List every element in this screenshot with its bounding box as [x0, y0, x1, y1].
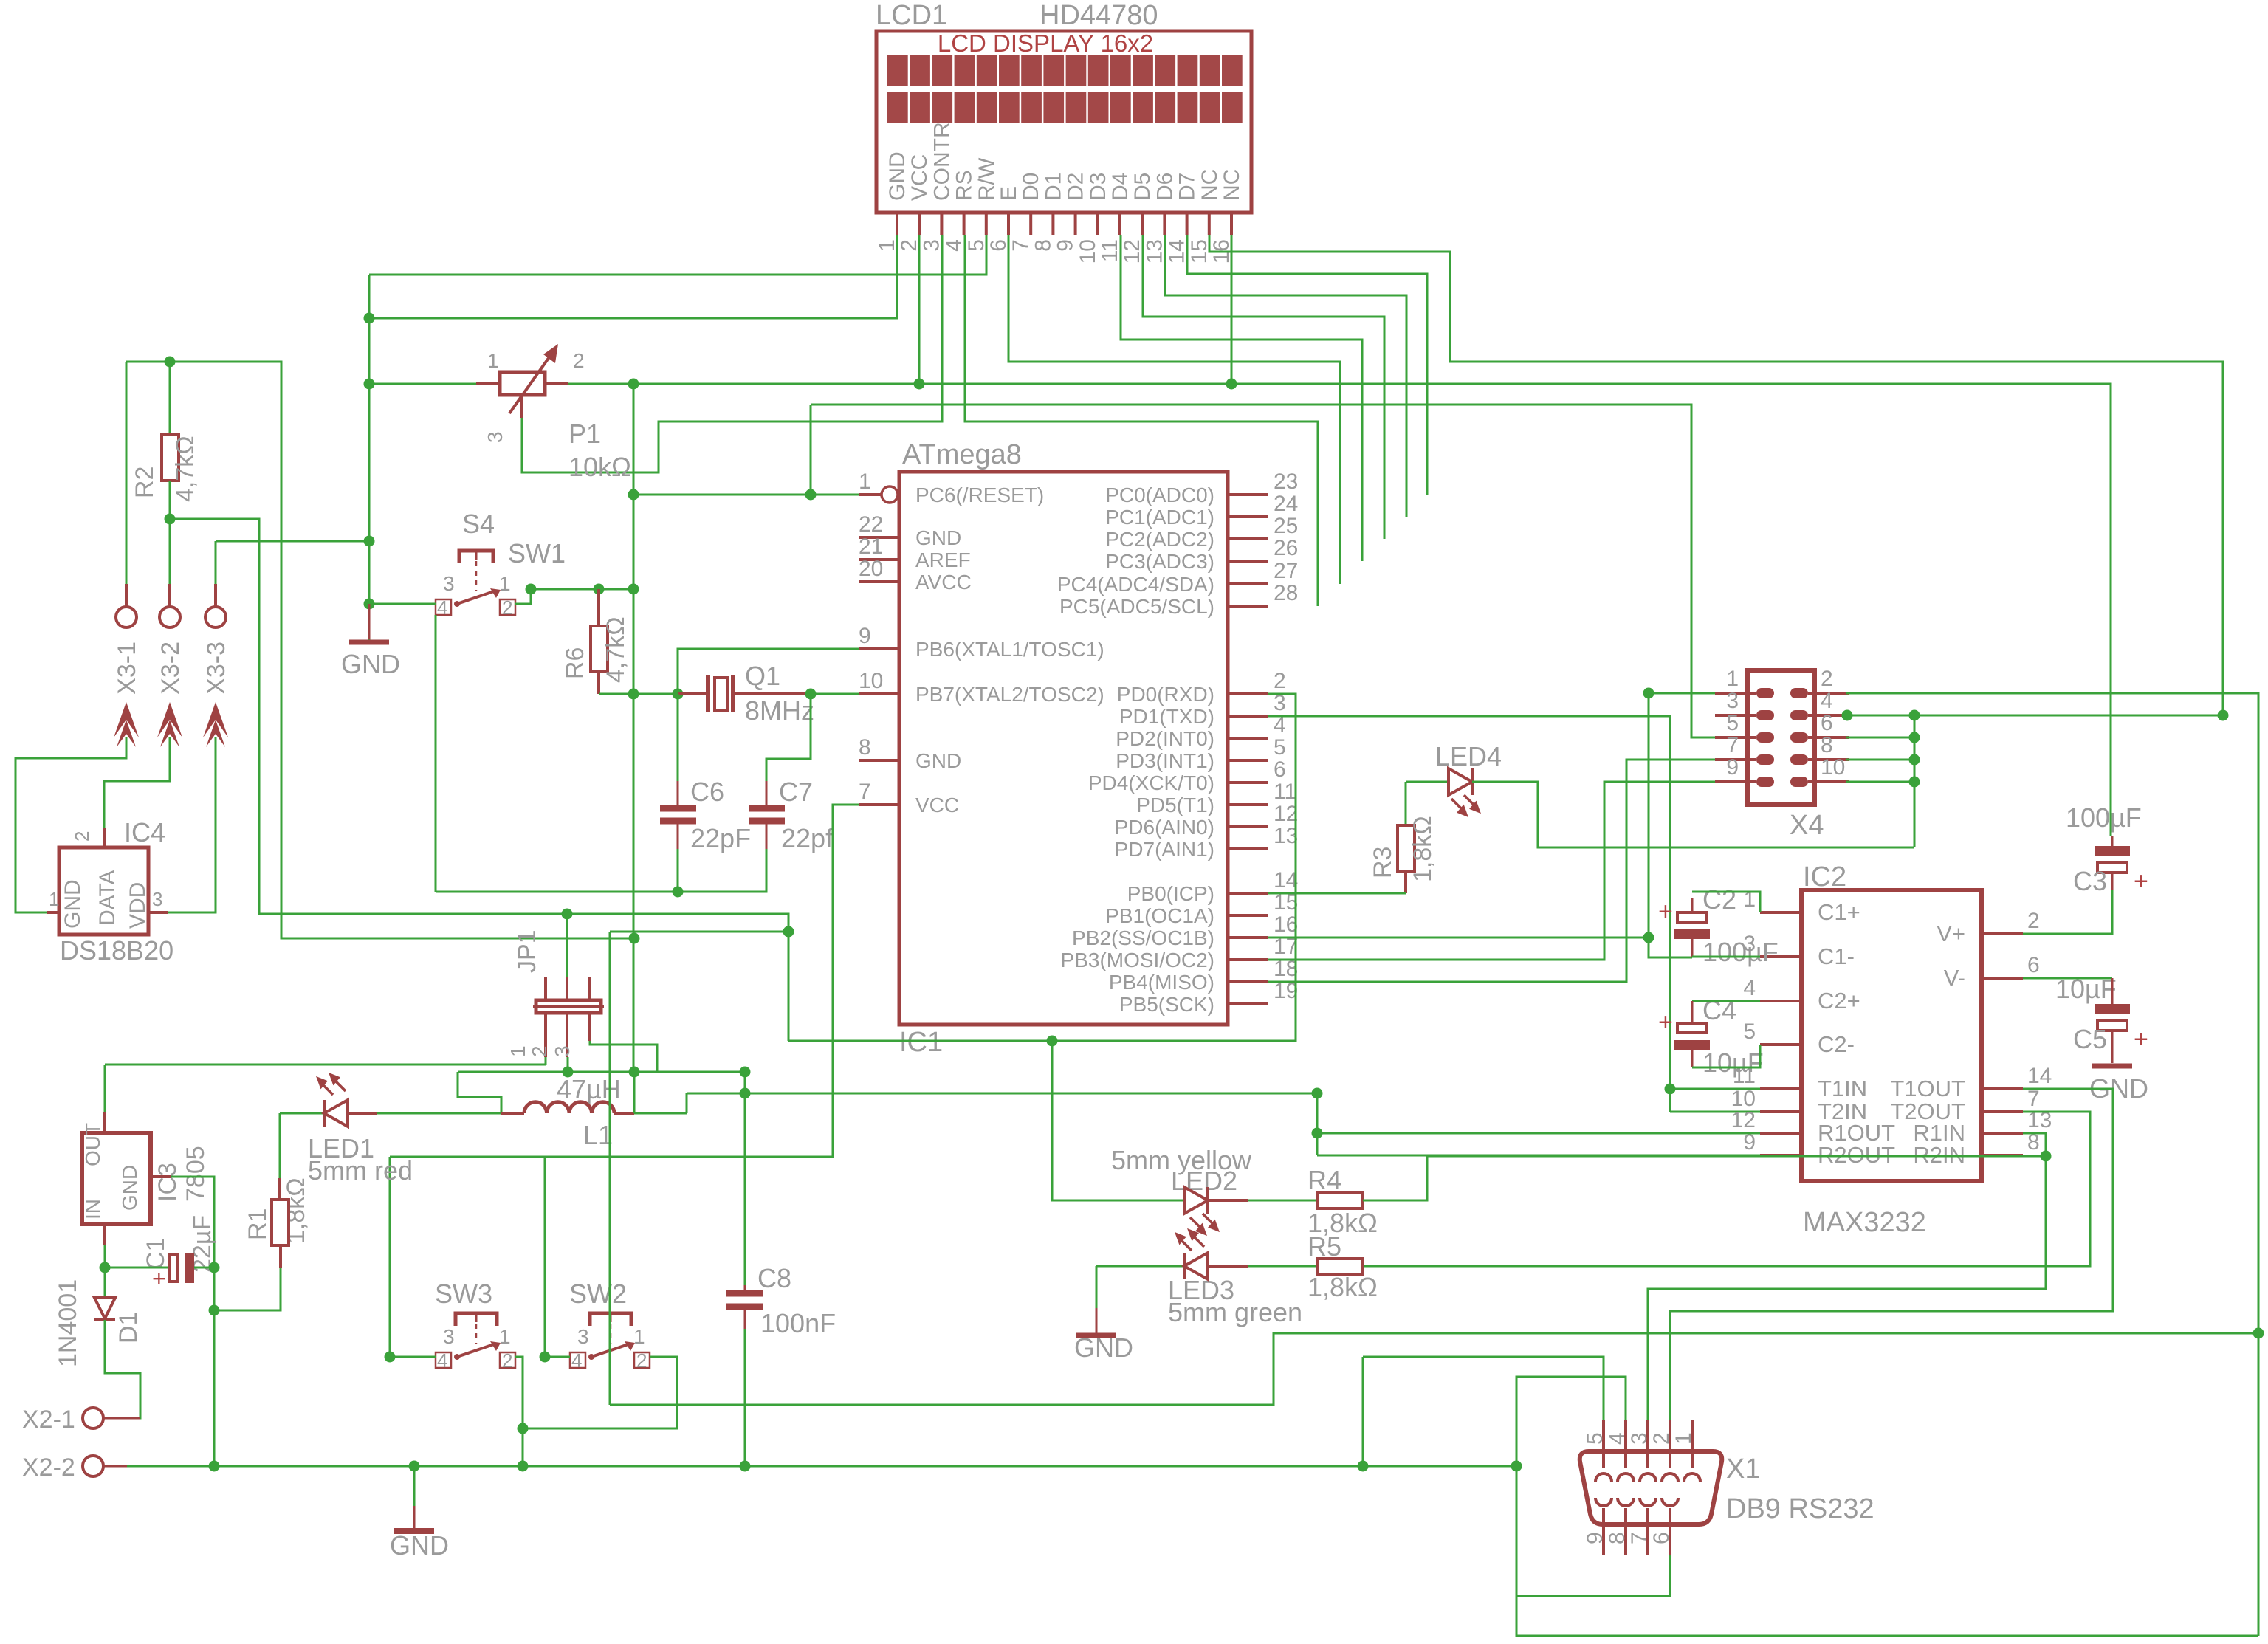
wire LCD pin16 down to VCC row	[1231, 235, 1233, 384]
X4 pin 7 pad	[1756, 754, 1774, 765]
junction	[914, 379, 925, 390]
X3-1 arrow head	[114, 702, 139, 737]
svg-text:2: 2	[1821, 667, 1833, 691]
svg-text:7805: 7805	[182, 1146, 210, 1202]
svg-text:100µF: 100µF	[2066, 802, 2142, 833]
X1 pin 3 stub	[1646, 1420, 1649, 1468]
svg-text:LCD1: LCD1	[876, 0, 947, 31]
svg-text:DS18B20: DS18B20	[60, 935, 173, 966]
svg-text:D2: D2	[1064, 173, 1088, 201]
wire row733 X3-3 to gnd column	[216, 540, 369, 543]
IC1 pin 14 stub	[1228, 892, 1268, 895]
LCD1 pin 3 stub	[940, 213, 943, 235]
svg-text:1: 1	[1726, 667, 1739, 691]
svg-text:LED2: LED2	[1171, 1166, 1237, 1196]
junction crystal row x858	[628, 689, 639, 700]
svg-text:+: +	[1658, 1008, 1673, 1036]
IC1 pin 1 reset bubble	[882, 486, 898, 503]
svg-text:14: 14	[1165, 239, 1189, 264]
IC1 pin 25 stub	[1228, 537, 1268, 540]
X1 pin 9 stub	[1602, 1508, 1605, 1555]
svg-text:S4: S4	[462, 509, 495, 539]
svg-text:3: 3	[1726, 689, 1739, 713]
junction SW3 pin3	[385, 1352, 396, 1363]
R1 body	[272, 1200, 289, 1245]
svg-text:10: 10	[1821, 755, 1845, 780]
IC1 pin 6 stub	[1228, 781, 1268, 784]
svg-text:2: 2	[1649, 1432, 1674, 1445]
X4 pin 6 pad	[1790, 732, 1808, 743]
wire V- to C5	[2023, 977, 2112, 980]
wire R1IN to DB9 pin3	[1648, 1133, 2046, 1420]
junction LED2 row1410	[1047, 1036, 1058, 1047]
wire PB3 MOSI to X4 pin9	[1268, 782, 1715, 960]
IC2 pin 3 stub	[1760, 955, 1801, 958]
IC1 pin 16 stub	[1228, 936, 1268, 939]
X1 pin 2 stub	[1669, 1420, 1671, 1468]
junction X4 gnd bus	[1909, 754, 1920, 766]
junction SW2/SW3	[518, 1423, 529, 1434]
LCD1 pin 1 stub	[896, 213, 898, 235]
Q1 left stub	[678, 692, 708, 695]
svg-text:100nF: 100nF	[760, 1308, 836, 1338]
junction C8 gnd	[740, 1461, 751, 1472]
SW3 pad 4	[436, 1352, 451, 1368]
IC1 pin 7 stub	[859, 803, 899, 806]
svg-text:IC1: IC1	[899, 1027, 943, 1058]
wire PD0 RXD route	[788, 694, 1296, 1041]
svg-text:C5: C5	[2073, 1024, 2107, 1054]
svg-text:1,8kΩ: 1,8kΩ	[1307, 1272, 1378, 1302]
wire R6 bottom to crystal row	[599, 693, 678, 695]
wire LED4 anode down to R3	[1405, 782, 1407, 825]
svg-text:12: 12	[1120, 239, 1144, 264]
X4 pin 9 stub	[1715, 780, 1756, 783]
svg-text:8: 8	[1031, 239, 1055, 252]
wire gnd column x290	[213, 1268, 216, 1466]
svg-text:D3: D3	[1086, 173, 1110, 201]
junction X4 pin4	[1842, 710, 1853, 721]
svg-text:6: 6	[1274, 757, 1286, 782]
junction	[364, 599, 375, 610]
wire row1452 to row1481	[744, 1072, 746, 1093]
svg-text:C7: C7	[779, 777, 813, 807]
wire LCD pin12 D5 to PC2 pin25	[1143, 235, 1384, 539]
svg-text:PD5(T1): PD5(T1)	[1136, 794, 1214, 816]
X3-1 pin stub	[125, 584, 128, 607]
wire C6 bottom	[677, 849, 679, 892]
svg-text:IC2: IC2	[1803, 861, 1846, 892]
junction VCC rail X4 pin4 row	[2218, 710, 2229, 721]
IC4 pin2 stub	[103, 828, 106, 847]
capacitor C2 100µF	[1677, 912, 1707, 922]
svg-text:+: +	[152, 1265, 166, 1292]
X4 pin 5 pad	[1756, 732, 1774, 743]
wire IC3 GND to C1	[171, 1177, 214, 1268]
wire LCD pin1 GND to gnd column	[369, 235, 897, 318]
svg-text:PB0(ICP): PB0(ICP)	[1127, 882, 1214, 905]
svg-text:C1-: C1-	[1818, 943, 1855, 969]
IC3 box	[82, 1133, 151, 1224]
wire RXD column x1784	[1316, 1093, 1319, 1155]
svg-text:2: 2	[2027, 909, 2040, 933]
svg-text:47µH: 47µH	[557, 1074, 621, 1104]
X1 pin 1 stub	[1691, 1420, 1694, 1468]
LED1 light arrows	[318, 1075, 346, 1095]
wire to T2IN pin	[1670, 1111, 1760, 1113]
svg-text:1: 1	[859, 470, 871, 494]
wire PD6 to LED2	[1052, 1041, 1183, 1200]
svg-text:D5: D5	[1130, 173, 1155, 201]
svg-text:4,7kΩ: 4,7kΩ	[171, 436, 199, 502]
wire LED4 to X4 gnd bus	[1472, 782, 1914, 847]
ground symbol GND C5	[2092, 1064, 2132, 1069]
wire LED1 left	[280, 1112, 323, 1115]
LED3 anode stub	[1208, 1265, 1248, 1268]
svg-text:C6: C6	[690, 777, 724, 807]
wire X3-3 top	[215, 541, 217, 584]
wire D1 to X2-1	[103, 1320, 140, 1418]
svg-text:2: 2	[897, 239, 921, 252]
LCD1 pin 4 stub	[963, 213, 966, 235]
svg-text:R4: R4	[1307, 1165, 1341, 1195]
wire SW3 pin2 down	[515, 1357, 523, 1466]
S4 pad 4	[436, 599, 451, 615]
wire LED3 to gnd	[1096, 1266, 1098, 1308]
svg-text:2: 2	[528, 1045, 551, 1057]
svg-text:PC3(ADC3): PC3(ADC3)	[1105, 550, 1214, 573]
S4 actuator bracket	[459, 551, 493, 563]
S4 lever	[457, 591, 496, 604]
X4 pin 3 pad	[1756, 710, 1774, 720]
junction	[364, 536, 375, 547]
SW3 pad 2	[500, 1352, 515, 1368]
IC2 pin 11 stub	[1760, 1087, 1801, 1090]
L1 right stub	[614, 1112, 634, 1115]
svg-text:CONTR: CONTR	[929, 122, 954, 201]
svg-text:PD1(TXD): PD1(TXD)	[1119, 705, 1214, 728]
svg-text:D7: D7	[1175, 173, 1200, 201]
IC4 pin3 stub	[148, 911, 168, 914]
svg-text:2: 2	[1274, 669, 1286, 693]
wire LCD pin13 D6 to PC1 pin24	[1165, 235, 1406, 517]
svg-text:1: 1	[506, 1045, 529, 1057]
svg-text:NC: NC	[1197, 169, 1222, 201]
junction R2 top	[165, 357, 176, 368]
R5 body	[1317, 1259, 1363, 1274]
LCD1 pin 8 stub	[1051, 213, 1054, 235]
svg-text:PD3(INT1): PD3(INT1)	[1116, 749, 1214, 772]
svg-text:4,7kΩ: 4,7kΩ	[602, 616, 630, 683]
svg-text:PB3(MOSI/OC2): PB3(MOSI/OC2)	[1061, 949, 1214, 971]
svg-text:GND: GND	[1074, 1332, 1133, 1363]
wire R2 bottom to X3-2	[169, 481, 171, 584]
wire to P1 pin1	[369, 383, 476, 385]
LED2 cathode stub	[1208, 1199, 1248, 1202]
IC1 pin 24 stub	[1228, 515, 1268, 518]
svg-text:21: 21	[859, 534, 883, 559]
svg-text:3: 3	[577, 1325, 589, 1348]
wire reset row548 PC6 to X4 pin5	[811, 405, 1715, 737]
R2 body	[162, 435, 179, 481]
svg-text:6: 6	[986, 239, 1011, 252]
svg-text:PC1(ADC1): PC1(ADC1)	[1105, 506, 1214, 529]
junction crystal left	[673, 689, 684, 700]
svg-text:6: 6	[1821, 711, 1833, 735]
IC2 pin 5 stub	[1760, 1043, 1801, 1046]
IC1 box	[899, 472, 1228, 1025]
svg-text:GND: GND	[915, 526, 961, 549]
svg-text:L1: L1	[583, 1120, 613, 1150]
LCD1 pin 5 stub	[985, 213, 988, 235]
svg-text:5: 5	[1583, 1432, 1607, 1445]
svg-text:X4: X4	[1790, 810, 1824, 841]
svg-text:R2: R2	[131, 467, 159, 498]
junction X4 gnd bus	[1909, 777, 1920, 788]
wire C2 bottom to pin3	[1692, 956, 1760, 958]
Q1 right stub	[733, 692, 811, 695]
R6 bottom stub	[597, 672, 600, 694]
wire C8 top	[744, 1093, 746, 1285]
junction gnd stem	[409, 1461, 420, 1472]
wire XTAL1 PB6 to crystal	[678, 649, 859, 694]
svg-text:1N4001: 1N4001	[54, 1279, 82, 1367]
svg-text:PB7(XTAL2/TOSC2): PB7(XTAL2/TOSC2)	[915, 683, 1104, 706]
svg-text:PC6(/RESET): PC6(/RESET)	[915, 484, 1044, 506]
wire SW2 pad3 left	[545, 1356, 570, 1358]
IC1 pin 21 stub	[859, 558, 899, 561]
svg-text:SW3: SW3	[435, 1279, 492, 1309]
svg-text:PD7(AIN1): PD7(AIN1)	[1115, 838, 1214, 861]
wire X4 gnd bus column	[1914, 715, 1916, 847]
svg-text:26: 26	[1274, 536, 1298, 560]
svg-text:3: 3	[152, 888, 162, 910]
svg-text:DATA: DATA	[95, 870, 120, 926]
svg-text:PC5(ADC5/SCL): PC5(ADC5/SCL)	[1059, 595, 1214, 618]
IC2 pin 1 stub	[1760, 911, 1801, 914]
svg-text:R3: R3	[1369, 847, 1397, 878]
LCD1 pin 15 stub	[1208, 213, 1211, 235]
svg-text:PB6(XTAL1/TOSC1): PB6(XTAL1/TOSC1)	[915, 638, 1104, 661]
X1 pin 1 contact	[1684, 1473, 1700, 1482]
junction	[594, 584, 605, 595]
svg-text:10: 10	[1076, 239, 1100, 264]
wire row1452 jog to L1	[458, 1072, 501, 1113]
JP1 pin 3 top	[588, 977, 591, 1000]
wire DB9 pin5 to gnd col	[1363, 1357, 1604, 1420]
svg-text:PC2(ADC2): PC2(ADC2)	[1105, 528, 1214, 551]
svg-text:7: 7	[1726, 733, 1739, 757]
svg-text:GND: GND	[118, 1165, 141, 1211]
svg-text:7: 7	[1008, 239, 1033, 252]
junction row1262 DATA col	[783, 926, 794, 938]
wire X3-3 to DS18B20 VDD	[168, 737, 216, 912]
IC4 pin1 stub	[47, 911, 59, 914]
wire LCD pin15 to VCC rail right edge	[1209, 235, 2223, 715]
wire to D1	[104, 1268, 106, 1296]
wire VCC down to SW3	[389, 1157, 391, 1357]
IC1 pin 17 stub	[1228, 958, 1268, 961]
svg-text:5mm red: 5mm red	[308, 1155, 413, 1186]
X4 pin 4 pad	[1790, 710, 1808, 720]
svg-text:5: 5	[1274, 735, 1286, 760]
svg-text:6: 6	[2027, 953, 2040, 977]
IC1 pin 1 stub	[859, 493, 882, 496]
S4 pad 2	[500, 599, 515, 615]
svg-text:+: +	[2134, 867, 2148, 895]
svg-text:C2+: C2+	[1818, 988, 1860, 1014]
svg-text:GND: GND	[915, 749, 961, 772]
svg-text:9: 9	[1583, 1532, 1607, 1544]
svg-text:9: 9	[859, 624, 871, 648]
wire S4 to R6 top row	[531, 588, 633, 591]
svg-text:10µF: 10µF	[1702, 1048, 1764, 1078]
JP1 pin 2 top	[566, 977, 568, 1000]
svg-text:11: 11	[1274, 780, 1296, 804]
junction RXD row1481	[1312, 1088, 1323, 1099]
LED2 light arrows	[1190, 1214, 1217, 1234]
wire gnd to S4 pad4	[369, 603, 436, 605]
X3-3 arrow head	[203, 702, 228, 737]
svg-text:4: 4	[571, 1349, 582, 1372]
JP1 pin 1 top	[544, 977, 547, 1000]
svg-text:3: 3	[919, 239, 944, 252]
wire LCD pin3 CONTR to P1 wiper	[522, 235, 942, 472]
X4 pin 1 stub	[1715, 692, 1756, 695]
svg-text:13: 13	[1142, 239, 1166, 264]
svg-text:3: 3	[1627, 1432, 1652, 1445]
wire IC3 OUT up	[104, 1065, 106, 1112]
JP1 pin 1 bottom	[544, 1013, 547, 1057]
svg-text:MAX3232: MAX3232	[1803, 1207, 1926, 1238]
wire PC6 pin1 row	[633, 494, 859, 496]
X1 pin 4 stub	[1624, 1420, 1627, 1468]
wire col2233 to C2 bottom	[1649, 693, 1692, 957]
wire RXD col x826	[609, 932, 611, 1405]
wire C1 right	[194, 1267, 214, 1269]
svg-text:27: 27	[1274, 559, 1298, 583]
junction JP1 pin2 DATA	[562, 909, 573, 920]
svg-text:VCC: VCC	[907, 154, 932, 201]
svg-text:13: 13	[1274, 824, 1298, 848]
svg-text:4: 4	[942, 239, 966, 252]
junction X4 gnd bus	[1909, 732, 1920, 743]
svg-text:C4: C4	[1702, 995, 1736, 1025]
X4 box	[1748, 670, 1815, 805]
junction IC3 IN C1	[100, 1262, 111, 1273]
wire C1 left	[105, 1267, 169, 1269]
IC1 pin 2 stub	[1228, 692, 1268, 695]
svg-text:10kΩ: 10kΩ	[568, 452, 631, 482]
wire LCD pin11 D4 to PC3 pin26	[1121, 235, 1362, 561]
svg-text:LCD DISPLAY 16x2: LCD DISPLAY 16x2	[938, 30, 1153, 57]
junction bottom rail x290	[209, 1461, 220, 1472]
svg-text:C2-: C2-	[1818, 1031, 1855, 1057]
svg-text:28: 28	[1274, 581, 1298, 605]
wire to T1IN pin	[1670, 1088, 1760, 1090]
LED4 light arrows	[1451, 795, 1479, 815]
IC1 pin 13 stub	[1228, 847, 1268, 850]
wire R1 bottom to gnd col	[214, 1268, 281, 1310]
svg-text:PD4(XCK/T0): PD4(XCK/T0)	[1088, 771, 1214, 794]
wire DB9 pin6 down	[1516, 1555, 1670, 1596]
SW2 pad 4	[570, 1352, 585, 1368]
wire R1OUT row	[1317, 1132, 1760, 1135]
svg-text:22pF: 22pF	[690, 823, 751, 853]
wire gnd stem	[413, 1466, 416, 1506]
svg-text:14: 14	[2027, 1064, 2052, 1088]
SW2 pad 2	[634, 1352, 650, 1368]
svg-text:3: 3	[484, 431, 506, 443]
wire X3-2 to DS18B20 DATA pin	[104, 737, 170, 828]
svg-text:4: 4	[1743, 976, 1756, 1000]
X1 pin 9 contact	[1595, 1498, 1612, 1506]
wire L1 to row1452	[633, 1072, 636, 1113]
P1 pin2 stub	[545, 382, 568, 385]
IC2 pin 13 stub	[1982, 1132, 2023, 1135]
junction C8 top	[740, 1088, 751, 1099]
LCD1 pin 11 stub	[1118, 213, 1121, 235]
junction SW2 pin3	[540, 1352, 551, 1363]
junction	[364, 313, 375, 324]
IC2 pin 10 stub	[1760, 1110, 1801, 1113]
C7 bottom stub	[766, 821, 768, 849]
svg-text:6: 6	[1649, 1532, 1674, 1544]
wire S4 pin2 to reset net	[515, 589, 531, 604]
svg-text:2: 2	[573, 349, 585, 372]
X4 pin 1 pad	[1756, 688, 1774, 698]
X4 pin 10 stub	[1808, 780, 1849, 783]
wire X3-1 down	[126, 362, 128, 584]
svg-text:D0: D0	[1019, 173, 1043, 201]
R4 body	[1317, 1193, 1363, 1208]
X4 pin 7 stub	[1715, 758, 1756, 761]
X1 pin 8 stub	[1624, 1508, 1627, 1555]
IC3 OUT stub	[103, 1112, 106, 1133]
svg-text:C8: C8	[757, 1263, 791, 1293]
R3 bottom stub	[1404, 871, 1407, 893]
svg-text:2: 2	[502, 1349, 512, 1372]
svg-text:1: 1	[875, 239, 899, 252]
svg-text:PC4(ADC4/SDA): PC4(ADC4/SDA)	[1057, 573, 1214, 596]
junction bottom rail pin4 loop	[1511, 1461, 1522, 1472]
wire PB4 MISO to X4 pin7	[1268, 760, 1715, 982]
JP1 pin 3 bottom	[588, 1013, 591, 1041]
wire C8 bottom to gnd	[744, 1329, 746, 1466]
wire 9V row to JP1 pin1	[105, 1064, 546, 1066]
wire LED2 to R4	[1248, 1200, 1317, 1202]
svg-text:23: 23	[1274, 470, 1298, 494]
svg-text:IC3: IC3	[154, 1163, 182, 1202]
svg-text:P1: P1	[568, 419, 601, 449]
svg-text:22: 22	[859, 512, 883, 537]
wire LED1 col down to R1	[279, 1113, 281, 1178]
IC2 pin 8 stub	[1982, 1154, 2023, 1157]
IC1 pin 11 stub	[1228, 803, 1268, 806]
ground symbol GND near S4	[368, 604, 371, 639]
X4 pin 3 stub	[1715, 714, 1756, 717]
wire JP1 pin2 down	[567, 1057, 569, 1072]
svg-text:V+: V+	[1937, 921, 1965, 946]
wire cap gnd row1208 left	[436, 891, 678, 893]
svg-text:R1: R1	[244, 1208, 272, 1240]
wire C6 top	[677, 694, 679, 781]
svg-text:GND: GND	[390, 1530, 449, 1561]
C1 plate outline	[169, 1254, 178, 1282]
IC3 GND stub	[151, 1175, 171, 1178]
X4 pin 10 pad	[1790, 777, 1808, 787]
wire VCC row to SW2	[390, 1156, 545, 1158]
